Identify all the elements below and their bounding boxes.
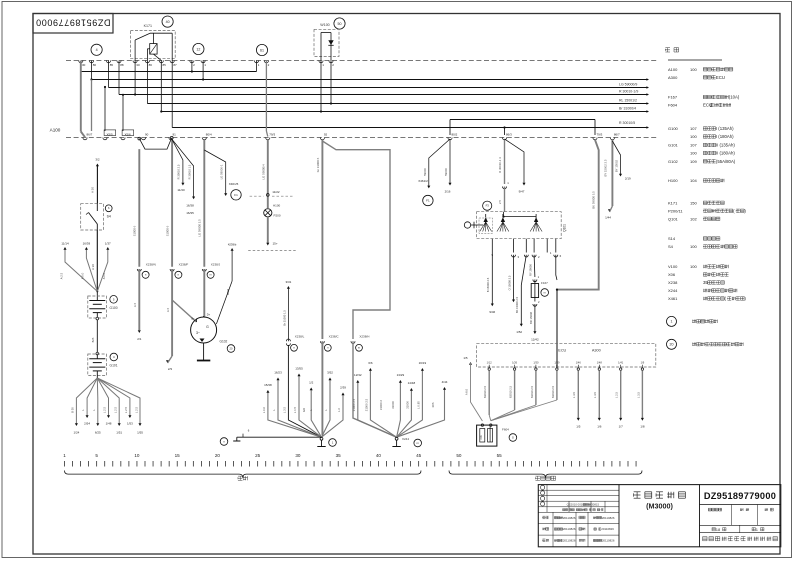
svg-text:I (135Ah): I (135Ah) (716, 126, 734, 131)
svg-text:5: 5 (95, 453, 98, 458)
svg-text:R 30010-1 4: R 30010-1 4 (498, 157, 502, 173)
svg-text:W100: W100 (320, 23, 329, 27)
svg-text:86/7: 86/7 (614, 133, 620, 137)
svg-text:85: 85 (163, 63, 167, 67)
svg-text:11/40: 11/40 (177, 188, 185, 192)
svg-text:63010 2.5: 63010 2.5 (483, 386, 487, 398)
svg-text:2/54: 2/54 (84, 422, 90, 426)
svg-text:S4: S4 (668, 244, 674, 249)
svg-text:A100: A100 (50, 128, 61, 133)
svg-text:16/38: 16/38 (186, 203, 194, 207)
svg-text:35: 35 (336, 453, 342, 458)
svg-text:R 30010/5: R 30010/5 (619, 121, 635, 125)
svg-text:85: 85 (110, 63, 114, 67)
svg-text:16/35: 16/35 (186, 211, 194, 215)
svg-text:86: 86 (149, 63, 153, 67)
svg-text:m: m (544, 291, 546, 294)
svg-text:m: m (358, 347, 360, 350)
svg-text:20110826: 20110826 (602, 516, 615, 520)
svg-text:20110826: 20110826 (601, 527, 614, 531)
svg-text:X5/6: X5/6 (125, 133, 132, 137)
svg-text:II (135Ah): II (135Ah) (716, 143, 735, 148)
svg-text:20: 20 (215, 453, 221, 458)
svg-text:40: 40 (376, 453, 382, 458)
svg-text:F167: F167 (541, 281, 548, 285)
svg-text:A 6: A 6 (133, 303, 137, 308)
svg-text:25: 25 (255, 453, 261, 458)
svg-text:GR: GR (302, 408, 306, 412)
svg-text:15/38: 15/38 (264, 383, 272, 387)
svg-text:1/46: 1/46 (576, 360, 582, 364)
svg-text:13/29: 13/29 (397, 373, 405, 377)
svg-text:LG 59000-1: LG 59000-1 (219, 164, 223, 179)
svg-text:L 2.5: L 2.5 (103, 407, 107, 414)
svg-text:m: m (210, 274, 212, 277)
svg-text:G: G (206, 325, 209, 329)
svg-text:X238/F: X238/F (179, 263, 189, 267)
svg-text:91: 91 (173, 133, 177, 137)
svg-text:61: 61 (260, 48, 264, 52)
svg-text:20110826: 20110826 (563, 527, 576, 531)
svg-text:A 2.5: A 2.5 (60, 272, 64, 279)
svg-text:II (180Ah): II (180Ah) (716, 151, 735, 156)
svg-text:K171: K171 (144, 24, 152, 28)
svg-text:A 30: A 30 (91, 264, 95, 270)
svg-text:X238/H: X238/H (359, 335, 369, 339)
svg-text:1/51: 1/51 (116, 431, 122, 435)
svg-text:30: 30 (82, 63, 86, 67)
svg-text:150: 150 (690, 200, 697, 205)
svg-text:6/25: 6/25 (95, 431, 101, 435)
svg-text:3/2: 3/2 (95, 158, 100, 162)
svg-text:2/1: 2/1 (137, 337, 142, 341)
svg-text:I (180Ah): I (180Ah) (716, 134, 734, 139)
svg-text:30: 30 (136, 63, 140, 67)
svg-text:63010 2.5: 63010 2.5 (530, 386, 534, 398)
svg-text:X244: X244 (668, 288, 678, 293)
svg-text:31000 6: 31000 6 (133, 225, 137, 236)
svg-text:B+: B+ (191, 317, 195, 321)
svg-text:DZ95189779000: DZ95189779000 (704, 491, 776, 501)
svg-text:F1: F1 (234, 193, 238, 197)
svg-text:Q101: Q101 (563, 224, 567, 232)
svg-text:16/39: 16/39 (83, 242, 91, 246)
svg-text:L 0.85: L 0.85 (417, 401, 421, 409)
svg-text:1/5: 1/5 (463, 356, 468, 360)
svg-text:4239/b: 4239/b (228, 242, 237, 246)
svg-text:G: G (512, 435, 514, 439)
svg-text:45: 45 (416, 453, 422, 458)
svg-text:Br 31000 1.5: Br 31000 1.5 (282, 310, 286, 326)
svg-text:1: 1 (671, 320, 673, 324)
svg-text:K171: K171 (668, 200, 678, 205)
svg-text:1/53: 1/53 (127, 422, 133, 426)
svg-text:G100: G100 (110, 306, 118, 310)
svg-text:A300: A300 (668, 75, 678, 80)
svg-text:B 50: B 50 (71, 407, 75, 413)
svg-text:102: 102 (690, 216, 697, 221)
svg-text:1: 1 (63, 453, 66, 458)
svg-text:88: 88 (120, 63, 124, 67)
svg-text:1/44: 1/44 (605, 216, 611, 220)
svg-text:(55A/80A): (55A/80A) (716, 159, 736, 164)
svg-text:F167: F167 (668, 95, 678, 100)
svg-text:2/39: 2/39 (340, 386, 346, 390)
svg-text:RY 29000: RY 29000 (529, 264, 533, 276)
svg-text:11/14: 11/14 (61, 242, 69, 246)
svg-text:G102: G102 (220, 340, 228, 344)
svg-text:A300: A300 (592, 349, 601, 353)
svg-text:79/3: 79/3 (269, 133, 275, 137)
svg-text:X461/5: X461/5 (229, 182, 239, 186)
svg-text:50: 50 (338, 22, 342, 26)
svg-text:3/52: 3/52 (327, 371, 333, 375)
svg-text:F604: F604 (668, 103, 678, 108)
svg-text:9/46: 9/46 (489, 310, 495, 314)
svg-text:L 2.5: L 2.5 (135, 407, 139, 414)
svg-text:L 1.5: L 1.5 (293, 407, 297, 414)
svg-text:R 30010 2.5: R 30010 2.5 (177, 164, 181, 179)
svg-text:1/24: 1/24 (73, 431, 79, 435)
svg-text:2.5: 2.5 (498, 200, 502, 204)
svg-text:L 3.5: L 3.5 (636, 392, 640, 398)
svg-text:G101: G101 (110, 364, 118, 368)
svg-text:X244: X244 (402, 437, 409, 441)
svg-text:G102: G102 (668, 159, 679, 164)
svg-text:L 3.5: L 3.5 (593, 392, 597, 398)
svg-text:LG 59000/4: LG 59000/4 (262, 164, 266, 180)
svg-text:15: 15 (175, 453, 181, 458)
svg-text:2/3: 2/3 (168, 367, 173, 371)
svg-text:2/19: 2/19 (625, 177, 631, 181)
svg-text:31000 6: 31000 6 (379, 400, 383, 411)
svg-text:F3: F3 (486, 204, 490, 208)
svg-text:6/6: 6/6 (368, 361, 373, 365)
svg-text:X06: X06 (668, 272, 676, 277)
svg-text:79/3: 79/3 (597, 133, 603, 137)
svg-text:31000 2.5: 31000 2.5 (352, 398, 356, 411)
svg-text:2/16: 2/16 (445, 190, 451, 194)
svg-text:31000: 31000 (406, 401, 410, 409)
svg-text:BR 15008: BR 15008 (529, 312, 533, 324)
svg-text:A 6.0: A 6.0 (464, 388, 468, 395)
svg-text:L 6.0: L 6.0 (262, 407, 266, 414)
svg-text:1/7: 1/7 (619, 424, 624, 428)
svg-text:55: 55 (497, 453, 503, 458)
svg-text:BK 15008 2.5: BK 15008 2.5 (515, 296, 519, 313)
svg-text:87: 87 (173, 63, 177, 67)
svg-text:86/7: 86/7 (87, 133, 93, 137)
svg-text:4: 4 (96, 48, 98, 52)
svg-text:BY 15002: BY 15002 (615, 159, 619, 172)
svg-text:1/8: 1/8 (640, 424, 645, 428)
svg-text:O 15008 3.5: O 15008 3.5 (507, 275, 511, 290)
svg-text:X461/2: X461/2 (418, 179, 428, 183)
svg-text:X238: X238 (668, 280, 678, 285)
svg-text:A 6: A 6 (166, 308, 170, 313)
svg-text:13/55: 13/55 (295, 367, 303, 371)
svg-text:59000: 59000 (444, 168, 448, 176)
svg-text:1/39: 1/39 (554, 360, 560, 364)
svg-text:LG 59000 2.5: LG 59000 2.5 (198, 219, 202, 237)
svg-text:S14: S14 (668, 236, 676, 241)
svg-text:20110826: 20110826 (602, 539, 615, 543)
svg-text:40: 40 (166, 20, 170, 24)
svg-text:1/41: 1/41 (618, 360, 624, 364)
svg-text:DZ95189779000: DZ95189779000 (36, 17, 111, 27)
svg-text:63010 2.5: 63010 2.5 (551, 386, 555, 398)
svg-text:BK 59000 3.5: BK 59000 3.5 (591, 191, 595, 209)
svg-text:X238/L: X238/L (295, 335, 305, 339)
svg-text:LG 59000/9: LG 59000/9 (619, 83, 637, 87)
svg-text:109: 109 (690, 159, 697, 164)
svg-text:100: 100 (690, 67, 697, 72)
svg-text:1/52: 1/52 (516, 330, 522, 334)
svg-text:ECU: ECU (716, 75, 725, 80)
svg-text:4/44: 4/44 (442, 380, 448, 384)
svg-text:59000: 59000 (423, 168, 427, 176)
svg-text:(10A): (10A) (729, 95, 740, 100)
svg-text:1/55: 1/55 (137, 431, 143, 435)
svg-text:Q101: Q101 (668, 216, 679, 221)
svg-text:18: 18 (716, 527, 721, 532)
svg-text:1/26: 1/26 (512, 360, 518, 364)
svg-text:X5/5: X5/5 (107, 133, 114, 137)
svg-text:31000 2.5: 31000 2.5 (365, 398, 369, 411)
svg-text:100: 100 (690, 134, 697, 139)
svg-text:S4: S4 (107, 215, 111, 219)
svg-text:30S: 30S (431, 402, 435, 407)
svg-text:L 3.5: L 3.5 (282, 407, 286, 414)
svg-text:1/5: 1/5 (576, 424, 581, 428)
svg-text:A 6.0: A 6.0 (102, 272, 106, 279)
svg-text:1/30: 1/30 (533, 360, 539, 364)
svg-text:X238/N: X238/N (146, 263, 156, 267)
svg-text:14/48: 14/48 (408, 381, 416, 385)
svg-text:A100: A100 (668, 67, 678, 72)
svg-text:A 30: A 30 (91, 187, 95, 193)
svg-text:16/19: 16/19 (419, 361, 427, 365)
svg-text:3~: 3~ (196, 331, 200, 335)
svg-text:86/3: 86/3 (506, 133, 512, 137)
svg-text:10: 10 (134, 453, 140, 458)
svg-text:12/32: 12/32 (354, 373, 362, 377)
svg-text:86: 86 (93, 63, 97, 67)
svg-text:92: 92 (324, 133, 328, 137)
svg-text:1/2: 1/2 (309, 381, 314, 385)
svg-text:30: 30 (295, 453, 301, 458)
svg-text:31000 6: 31000 6 (165, 225, 169, 236)
svg-text:100: 100 (690, 151, 697, 156)
svg-text:G101: G101 (668, 143, 679, 148)
svg-text:16/23: 16/23 (274, 371, 282, 375)
svg-text:L 6: L 6 (337, 408, 341, 412)
svg-text:107: 107 (690, 126, 697, 131)
svg-text:Br 31000/4: Br 31000/4 (619, 107, 636, 111)
svg-text:107: 107 (690, 143, 697, 148)
svg-text:ECU: ECU (558, 349, 566, 353)
svg-text:1/6: 1/6 (597, 424, 602, 428)
svg-text:31000: 31000 (391, 401, 395, 409)
svg-text:BY 15002 3.5: BY 15002 3.5 (603, 159, 607, 176)
svg-text:D+: D+ (207, 313, 211, 317)
svg-text:12/42: 12/42 (531, 338, 539, 342)
svg-text:B 15008 2.5: B 15008 2.5 (486, 277, 490, 292)
svg-text:104: 104 (690, 178, 697, 183)
svg-text:X238/C: X238/C (329, 335, 340, 339)
svg-text:20110826: 20110826 (563, 539, 576, 543)
svg-text:80/4: 80/4 (206, 133, 212, 137)
svg-text:RL 15001/2: RL 15001/2 (619, 99, 637, 103)
svg-text:P200: P200 (274, 214, 281, 218)
svg-text:100: 100 (690, 244, 697, 249)
svg-text:63010 2.5: 63010 2.5 (509, 386, 513, 398)
svg-text:QS2010 0010: QS2010 0010 (567, 503, 585, 507)
svg-text:F1: F1 (426, 199, 430, 203)
svg-text:1/9: 1/9 (641, 360, 645, 364)
svg-text:B25: B25 (91, 337, 95, 342)
svg-text:80/2: 80/2 (452, 133, 458, 137)
svg-text:L 2.5: L 2.5 (124, 407, 128, 414)
svg-text:X06: X06 (480, 435, 483, 440)
svg-text:3/31: 3/31 (285, 280, 291, 284)
svg-text:90: 90 (145, 133, 149, 137)
svg-text:Gr 31000 6: Gr 31000 6 (316, 157, 320, 172)
svg-text:H100: H100 (668, 178, 678, 183)
svg-text:9/47: 9/47 (519, 190, 525, 194)
svg-text:G100: G100 (668, 126, 679, 131)
svg-text:L 2.5: L 2.5 (113, 407, 117, 414)
svg-text:P200/11: P200/11 (668, 208, 683, 213)
svg-text:(M3000): (M3000) (646, 501, 673, 510)
svg-text:12: 12 (196, 47, 200, 51)
svg-text:L 2.5: L 2.5 (615, 392, 619, 398)
svg-text:R 30010-1/9: R 30010-1/9 (619, 90, 638, 94)
svg-text:X238/J: X238/J (211, 263, 221, 267)
svg-text:R 30010 1.5: R 30010 1.5 (187, 164, 191, 179)
svg-text:X461: X461 (668, 296, 678, 301)
svg-text:1/37: 1/37 (105, 242, 111, 246)
svg-text:1/48: 1/48 (597, 360, 603, 364)
svg-text:20110826: 20110826 (563, 516, 576, 520)
svg-text:1/12: 1/12 (487, 360, 493, 364)
svg-text:15+: 15+ (273, 242, 278, 246)
svg-text:F604: F604 (502, 428, 509, 432)
svg-text:30815: 30815 (591, 503, 599, 507)
svg-text:H100: H100 (273, 203, 281, 207)
svg-text:20: 20 (670, 343, 674, 347)
svg-text:11/22: 11/22 (272, 190, 280, 194)
svg-text:100: 100 (690, 264, 697, 269)
svg-text:1/48: 1/48 (106, 422, 112, 426)
svg-text:A 6.0: A 6.0 (81, 272, 85, 279)
svg-text:V100: V100 (668, 264, 678, 269)
svg-text:50: 50 (456, 453, 462, 458)
svg-text:L 3.5: L 3.5 (572, 392, 576, 398)
